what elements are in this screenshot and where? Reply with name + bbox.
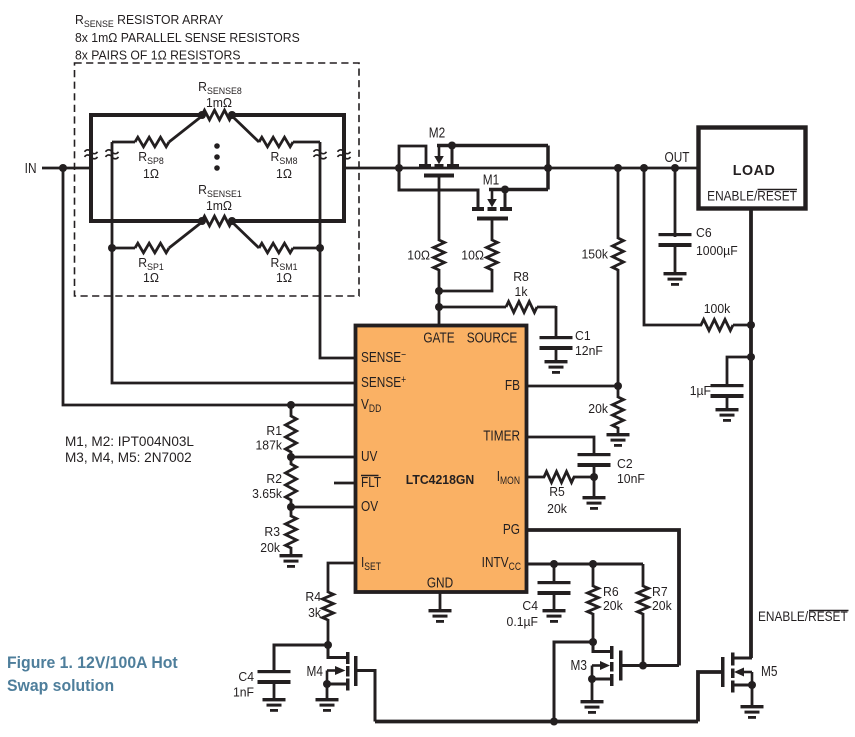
svg-text:100k: 100k xyxy=(704,302,731,316)
svg-text:1k: 1k xyxy=(515,285,529,299)
svg-text:20k: 20k xyxy=(603,599,623,613)
svg-text:10Ω: 10Ω xyxy=(407,248,430,262)
resistor RSM1 1 Ohm with leads xyxy=(232,222,320,253)
junction dot RSENSE8 left xyxy=(198,111,206,119)
transistor M5 drain lead xyxy=(733,657,752,660)
transistor M1 gate lead to 10 Ohm xyxy=(491,221,494,242)
wire IN down to VDD pin xyxy=(63,168,354,405)
resistor RSENSE1 1mOhm xyxy=(202,216,232,226)
wire C1 to ground xyxy=(555,350,558,361)
wire C4 0.1uF drop xyxy=(553,564,556,582)
wire R4 node to C4 1nF xyxy=(274,645,328,671)
junction dot bottom rail / M3 branch xyxy=(550,718,558,726)
junction dot main rail OUT / C6 xyxy=(671,164,679,172)
text C4 value 1nF xyxy=(233,685,254,699)
break mark inner-left xyxy=(106,150,119,159)
svg-text:M5: M5 xyxy=(761,663,777,680)
wire main rail to 100k xyxy=(644,168,702,325)
text RSP1 value xyxy=(143,271,159,285)
svg-text:SOURCE: SOURCE xyxy=(467,329,518,346)
transistor M3 body arrow xyxy=(592,661,610,670)
svg-text:GND: GND xyxy=(427,574,454,591)
wire M2/M1 drains to main rail xyxy=(546,146,550,190)
svg-text:150k: 150k xyxy=(582,247,609,261)
transistor M1 source/body/drain contact bars xyxy=(472,207,512,211)
ground below 1uF xyxy=(716,408,739,422)
wire M1 gate resistor joins M2 gate line xyxy=(439,269,492,291)
text M4 label xyxy=(307,663,324,680)
svg-text:1Ω: 1Ω xyxy=(276,271,292,285)
break mark inner-right xyxy=(314,150,327,159)
text note M3 M4 M5 types xyxy=(65,450,192,465)
junction dot M3 gate / R7 / PG xyxy=(639,662,647,670)
overline over RESET in LOAD box xyxy=(758,189,798,191)
break mark outer-right xyxy=(338,150,351,159)
resistor R3 20k xyxy=(286,507,297,555)
text R1 value 187k xyxy=(256,438,283,452)
junction dot RSENSE1 left xyxy=(198,217,206,225)
transistor M1 drain rail (thick) xyxy=(489,188,548,192)
svg-text:C1: C1 xyxy=(575,329,591,343)
transistor M4 body-source link xyxy=(326,671,329,685)
svg-text:M3, M4, M5: 2N7002: M3, M4, M5: 2N7002 xyxy=(65,450,192,465)
junction dot 100k to enable line xyxy=(747,321,755,329)
svg-text:C2: C2 xyxy=(617,457,633,471)
junction dot main rail / M2 drain xyxy=(544,164,552,172)
ground below M4 xyxy=(316,698,339,712)
transistor M2 drain rail (thick) xyxy=(437,144,548,148)
svg-text:TIMER: TIMER xyxy=(483,427,520,444)
text R2 label xyxy=(266,472,282,486)
resistor 150k with leads xyxy=(613,168,624,386)
junction dot M4 body/source xyxy=(323,680,331,688)
transistor M4 channel bars xyxy=(346,652,350,691)
text pin OV xyxy=(361,498,378,515)
text RSM8 value xyxy=(276,167,292,181)
text ENABLE/RESET net label xyxy=(758,608,848,624)
junction dot M1 drain xyxy=(501,186,509,194)
svg-text:GATE: GATE xyxy=(423,329,454,346)
op-amp U1 LTC4218GN IC body xyxy=(356,326,527,593)
svg-text:SENSE−​: SENSE−​ xyxy=(361,349,406,366)
text C6 value 1000uF xyxy=(696,244,738,258)
junction dot C2/R5 xyxy=(590,473,598,481)
junction dot FB node xyxy=(614,382,622,390)
text RSP8 value xyxy=(143,167,159,181)
text RSM8 label xyxy=(271,150,298,166)
svg-text:0.1µF: 0.1µF xyxy=(507,615,539,629)
resistor RSP8 1 Ohm with leads xyxy=(112,116,202,147)
text R3 value 20k xyxy=(260,541,280,555)
text RSENSE1 label xyxy=(198,183,242,199)
wire array loop right vertical (thick) xyxy=(342,113,346,223)
transistor M5 source lead xyxy=(733,684,752,687)
svg-text:8x PAIRS OF 1Ω RESISTORS: 8x PAIRS OF 1Ω RESISTORS xyxy=(75,48,240,62)
wire OV pin xyxy=(291,506,354,509)
wire 1uF to ground xyxy=(726,398,729,409)
svg-text:1µF: 1µF xyxy=(690,384,712,398)
text pin SOURCE xyxy=(467,329,518,346)
transistor M1 drain lead xyxy=(504,191,507,207)
wire SENSE+ kelvin line (left inner vertical) to SENSE+ pin xyxy=(112,142,354,383)
resistor R6 20k xyxy=(588,564,599,642)
svg-text:Swap solution: Swap solution xyxy=(7,677,114,695)
text IC name LTC4218GN xyxy=(406,473,475,487)
wire ISET pin to R4 xyxy=(328,563,354,593)
resistor 10 Ohm (M2 gate) xyxy=(434,240,445,270)
junction dot INTVCC/C4 xyxy=(550,560,558,568)
svg-text:20k: 20k xyxy=(260,541,280,555)
transistor M2 body arrow xyxy=(434,147,444,164)
text C1 label xyxy=(575,329,591,343)
text 10 Ohm value (left) xyxy=(407,248,430,262)
text C2 label xyxy=(617,457,633,471)
text LOAD xyxy=(733,163,776,179)
wire IN to array xyxy=(42,167,91,170)
ground below C6 xyxy=(664,272,687,286)
svg-text:RSENSE1​: RSENSE1​ xyxy=(198,183,242,199)
wire bottom rail (M4 gate to M5 gate) xyxy=(375,720,698,724)
svg-text:187k: 187k xyxy=(256,438,283,452)
svg-text:10nF: 10nF xyxy=(617,472,645,486)
wire TIMER pin to C2 xyxy=(527,437,594,454)
dashed boundary of resistor array xyxy=(75,63,360,296)
text RSENSE8 value 1mOhm xyxy=(206,96,232,110)
svg-text:PG: PG xyxy=(503,521,520,538)
transistor M5 channel bars xyxy=(731,653,735,693)
transistor M3 gate bar xyxy=(619,651,623,681)
wire LOAD enable down to M5 drain (thick) xyxy=(749,209,753,658)
text R8 label xyxy=(513,270,529,284)
resistor 100k xyxy=(701,320,751,331)
ground below 20k xyxy=(607,433,630,447)
wire FB pin to divider xyxy=(527,385,618,388)
svg-text:R5: R5 xyxy=(549,485,565,499)
resistor RSP1 1 Ohm with leads xyxy=(112,222,202,253)
text R7 label xyxy=(652,585,668,599)
text RSP1 label xyxy=(138,256,164,272)
svg-text:RSM8​: RSM8​ xyxy=(271,150,298,166)
svg-text:RSM1​: RSM1​ xyxy=(271,256,298,272)
text pin TIMER xyxy=(483,427,520,444)
wire array bottom row left segment (thick) xyxy=(89,219,203,223)
text C2 value 10nF xyxy=(617,472,645,486)
transistor M5 body-source link xyxy=(751,672,754,685)
resistor RSENSE8 1mOhm xyxy=(202,110,232,120)
svg-text:RSP1​: RSP1​ xyxy=(138,256,164,272)
junction dot gate/R8 tap xyxy=(435,303,443,311)
svg-text:LTC4218GN: LTC4218GN xyxy=(406,473,475,487)
resistor RSM8 1 Ohm with leads xyxy=(232,116,320,147)
transistor M4 gate bar xyxy=(354,656,358,686)
text RSENSE1 value 1mOhm xyxy=(206,199,232,213)
text pin FB xyxy=(505,377,520,394)
wire bottom rail up to M5 gate xyxy=(698,672,721,722)
transistor M2 channel plate xyxy=(424,174,454,178)
svg-text:1mΩ: 1mΩ xyxy=(206,199,232,213)
wire array loop left vertical (thick) xyxy=(89,113,93,223)
svg-text:20k: 20k xyxy=(652,599,672,613)
text 20k value (FB divider) xyxy=(588,402,608,416)
svg-text:R1: R1 xyxy=(266,424,282,438)
text M2 label xyxy=(429,124,445,141)
text C1 value 12nF xyxy=(575,344,603,358)
text note M1 M2 types xyxy=(65,434,194,449)
text pin GATE xyxy=(423,329,454,346)
wire array top row left segment (thick) xyxy=(89,113,203,117)
svg-text:Figure 1. 12V/100A Hot: Figure 1. 12V/100A Hot xyxy=(7,654,178,672)
text OUT label xyxy=(665,149,690,166)
resistor R5 20k with leads xyxy=(527,472,594,483)
text 150k value xyxy=(582,247,609,261)
capacitor C1 xyxy=(540,336,573,350)
svg-text:R6: R6 xyxy=(603,585,619,599)
svg-text:M3: M3 xyxy=(571,657,587,674)
resistor R4 3k xyxy=(323,592,334,645)
ellipsis dots (array continues) xyxy=(214,143,220,171)
svg-text:8x 1mΩ PARALLEL SENSE RESISTOR: 8x 1mΩ PARALLEL SENSE RESISTORS xyxy=(75,31,300,45)
svg-text:OUT: OUT xyxy=(665,149,690,166)
junction dot RSP1 left xyxy=(108,244,116,252)
transistor M2 source/body/drain contact bars xyxy=(419,164,459,168)
text pin SENSE- xyxy=(361,349,406,366)
svg-text:C4: C4 xyxy=(238,670,254,684)
svg-text:R3: R3 xyxy=(264,525,280,539)
wire SENSE- kelvin line (right inner vertical) to SENSE- pin xyxy=(320,142,354,358)
text RSM1 label xyxy=(271,256,298,272)
svg-text:LOAD: LOAD xyxy=(733,163,776,179)
text 100k value xyxy=(704,302,731,316)
text M3 label xyxy=(571,657,587,674)
junction dot M5 body/source xyxy=(748,681,756,689)
text RSP8 label xyxy=(138,150,164,166)
text C4 (1nF) label xyxy=(238,670,254,684)
wire M4 source to ground xyxy=(326,684,329,699)
text R5 label xyxy=(549,485,565,499)
text pin FLT with overline xyxy=(361,474,381,491)
capacitor C6 xyxy=(659,233,692,247)
resistor 10 Ohm (M1 gate) xyxy=(487,240,498,270)
text figure caption line 1 xyxy=(7,654,178,672)
text R2 value 3.65k xyxy=(252,487,283,501)
wire M3 source to ground xyxy=(591,679,594,701)
transistor M4 source lead xyxy=(327,683,347,686)
svg-text:FB: FB xyxy=(505,377,520,394)
junction dot main rail / 100k branch xyxy=(640,164,648,172)
text pin GND xyxy=(427,574,454,591)
text R6 value 20k xyxy=(603,599,623,613)
text R6 label xyxy=(603,585,619,599)
text M1 label xyxy=(483,171,499,188)
svg-text:UV: UV xyxy=(361,448,377,465)
svg-text:IN: IN xyxy=(25,160,37,177)
wire C4 0.1uF to ground xyxy=(553,595,556,610)
resistor R2 3.65k xyxy=(286,457,297,507)
text heading line 3 xyxy=(75,48,240,62)
resistor 20k below FB xyxy=(613,386,624,434)
svg-text:1Ω: 1Ω xyxy=(143,271,159,285)
svg-text:20k: 20k xyxy=(547,502,567,516)
transistor M4 body arrow xyxy=(327,666,346,675)
text R4 label xyxy=(305,590,321,604)
svg-text:M1, M2: IPT004N03L: M1, M2: IPT004N03L xyxy=(65,434,194,449)
wire PG pin right and down (thick) xyxy=(527,530,679,666)
wire M2 source node down/right to M1 source xyxy=(399,168,478,207)
wire array top row right segment (thick) xyxy=(231,113,346,117)
svg-text:R8: R8 xyxy=(513,270,529,284)
text R4 value 3k xyxy=(308,606,322,620)
junction dot RSENSE1 right xyxy=(228,217,236,225)
wire M3 node left and down to bottom rail xyxy=(554,642,593,722)
svg-text:R2: R2 xyxy=(266,472,282,486)
text figure caption line 2 xyxy=(7,677,114,695)
svg-text:1Ω: 1Ω xyxy=(276,167,292,181)
svg-text:FLT: FLT xyxy=(361,474,381,491)
transistor M3 channel bars xyxy=(610,646,614,686)
transistor M5 gate bar xyxy=(721,657,725,687)
transistor M2 gate lead to 10 Ohm xyxy=(438,178,441,242)
text C6 label xyxy=(696,226,712,240)
transistor M2 drain lead xyxy=(451,147,454,165)
transistor M3 body-source link xyxy=(591,666,594,680)
text R1 label xyxy=(266,424,282,438)
wire main rail array to LOAD xyxy=(343,167,698,170)
transistor M1 channel plate xyxy=(477,217,508,221)
wire C2 to IMON node xyxy=(593,467,596,477)
svg-text:R7: R7 xyxy=(652,585,668,599)
text R8 value 1k xyxy=(515,285,529,299)
junction dot IN/VDD tap xyxy=(59,164,67,172)
wire INTVCC pin to R7 xyxy=(527,563,643,566)
svg-text:RSENSE​ RESISTOR ARRAY: RSENSE​ RESISTOR ARRAY xyxy=(75,13,224,29)
svg-text:12nF: 12nF xyxy=(575,344,603,358)
text pin PG xyxy=(503,521,520,538)
svg-text:10Ω: 10Ω xyxy=(461,248,484,262)
block LOAD box xyxy=(699,128,806,209)
wire IMON node to ground xyxy=(593,477,596,497)
transistor M3 source lead xyxy=(592,678,611,681)
svg-text:3k: 3k xyxy=(308,606,322,620)
svg-text:OV: OV xyxy=(361,498,378,515)
svg-text:1000µF: 1000µF xyxy=(696,244,738,258)
svg-text:1Ω: 1Ω xyxy=(143,167,159,181)
wire M5 source to ground xyxy=(751,685,754,706)
wire M2 gate resistor to GATE pin xyxy=(438,269,441,325)
ground below M3 xyxy=(581,700,604,714)
transistor M3 drain lead xyxy=(593,642,611,652)
overline over RESET in net label xyxy=(809,610,849,612)
ground below M5 xyxy=(741,705,764,719)
capacitor C2 xyxy=(578,453,611,467)
resistor R1 187k xyxy=(286,405,297,457)
capacitor 1uF xyxy=(711,384,744,398)
svg-text:1nF: 1nF xyxy=(233,685,254,699)
svg-text:SENSE+​: SENSE+​ xyxy=(361,374,406,391)
wire M3 gate to R7/PG node xyxy=(622,664,679,667)
text pin VDD xyxy=(361,396,381,416)
ground below R3 xyxy=(280,554,303,568)
capacitor C4 1nF xyxy=(258,670,291,684)
resistor R8 1k with leads xyxy=(439,302,556,313)
text RSENSE8 label xyxy=(198,80,242,96)
text pin UV xyxy=(361,448,377,465)
resistor R7 20k xyxy=(638,564,649,666)
text pin SENSE+ xyxy=(361,374,406,391)
wire array bottom row right segment (thick) xyxy=(231,219,346,223)
svg-text:M4: M4 xyxy=(307,663,324,680)
svg-text:3.65k: 3.65k xyxy=(252,487,283,501)
svg-text:C4: C4 xyxy=(522,599,538,613)
transistor M5 body arrow xyxy=(734,668,752,677)
capacitor C4 0.1uF xyxy=(538,581,571,595)
wire M4 gate to bottom rail xyxy=(357,671,375,722)
wire FLT stub xyxy=(334,482,354,485)
wire UV pin xyxy=(291,456,354,459)
svg-text:RSP8​: RSP8​ xyxy=(138,150,164,166)
ground below C4 1nF xyxy=(263,698,286,712)
junction dot R2/R3/OV xyxy=(287,503,295,511)
junction dot M2 drain xyxy=(448,142,456,150)
ground below C1 xyxy=(545,360,568,374)
transistor M4 drain lead xyxy=(328,645,347,658)
text pin IMON xyxy=(497,468,520,488)
text RSM1 value xyxy=(276,271,292,285)
svg-text:M2: M2 xyxy=(429,124,445,141)
junction dot INTVCC/R6 xyxy=(589,560,597,568)
transistor M2 source hook wire xyxy=(399,146,426,168)
wire C4 1nF to ground xyxy=(273,684,276,699)
junction dot enable/1uF xyxy=(747,353,755,361)
text C4 (0.1uF) label xyxy=(522,599,538,613)
svg-text:C6: C6 xyxy=(696,226,712,240)
junction dot VDD/R1 xyxy=(287,401,295,409)
text M5 label xyxy=(761,663,777,680)
node IN label xyxy=(25,160,37,177)
wire OUT to C6 xyxy=(674,168,677,237)
svg-text:1mΩ: 1mΩ xyxy=(206,96,232,110)
transistor M1 body arrow xyxy=(487,191,497,207)
text C4 value 0.1uF xyxy=(507,615,539,629)
text heading line 2 xyxy=(75,31,300,45)
junction dot M3 body/source xyxy=(588,675,596,683)
ground below C4 0.1uF xyxy=(543,609,566,623)
text R3 label xyxy=(264,525,280,539)
junction dot RSM1 right xyxy=(316,244,324,252)
junction dot R1/R2/UV xyxy=(287,453,295,461)
wire 1uF tap xyxy=(727,357,751,385)
junction dot main rail / M2 source tap xyxy=(395,164,403,172)
wire C6 to ground xyxy=(674,247,677,273)
text LOAD ENABLE/RESET xyxy=(707,188,797,204)
svg-text:M1: M1 xyxy=(483,171,499,188)
junction dot main rail / 150k xyxy=(614,164,622,172)
svg-text:20k: 20k xyxy=(588,402,608,416)
text R7 value 20k xyxy=(652,599,672,613)
text R5 value 20k xyxy=(547,502,567,516)
svg-text:RSENSE8​: RSENSE8​ xyxy=(198,80,242,96)
svg-text:R4: R4 xyxy=(305,590,321,604)
text pin ISET xyxy=(361,554,381,574)
text pin INTVCC xyxy=(482,554,521,574)
text R_SENSE resistor array heading line 1 xyxy=(75,13,224,29)
text 1uF value xyxy=(690,384,712,398)
junction dot R4/M4/C4 node xyxy=(324,641,332,649)
ground at GND pin xyxy=(429,593,452,623)
junction dot gate lines join xyxy=(435,287,443,295)
junction dot RSENSE8 right xyxy=(228,111,236,119)
wire R8 to C1 xyxy=(555,306,558,337)
ground below C2/R5 xyxy=(583,496,606,510)
